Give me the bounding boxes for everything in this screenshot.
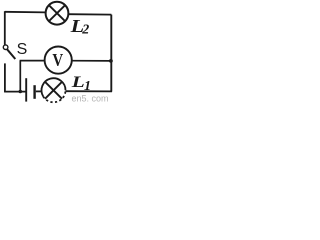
voltmeter V — [45, 47, 72, 74]
wire battery to lamp L1 — [36, 90, 42, 92]
wire top-right horizontal — [68, 13, 111, 15]
svg-text:V: V — [52, 50, 63, 70]
wire left vertical upper (to switch) — [4, 11, 6, 45]
label L1 — [70, 74, 91, 94]
wire bottom-left horizontal (corner to battery) — [4, 91, 25, 93]
lamp L1 — [42, 78, 66, 102]
svg-text:2: 2 — [81, 22, 89, 37]
wire voltmeter left branch vertical — [19, 61, 21, 92]
wire voltmeter right horizontal — [72, 60, 112, 62]
battery — [26, 78, 34, 101]
label L2 — [69, 16, 89, 37]
lamp L2 — [46, 2, 69, 25]
wire top-left horizontal — [5, 11, 46, 14]
svg-text:S: S — [17, 41, 28, 58]
wire bottom-right horizontal — [65, 90, 112, 92]
svg-text:en5. com: en5. com — [72, 94, 109, 104]
node junction left (voltmeter tap) — [19, 90, 23, 94]
wire voltmeter left horizontal — [20, 60, 45, 62]
wire right vertical — [110, 15, 112, 92]
svg-text:L: L — [70, 74, 85, 91]
node junction right — [109, 59, 113, 63]
switch S — [3, 45, 15, 59]
wire left vertical lower (switch to bottom corner) — [4, 63, 6, 92]
